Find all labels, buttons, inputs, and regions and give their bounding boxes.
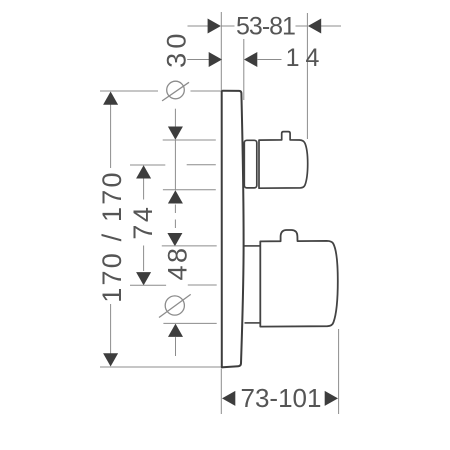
ref line bottom of bottom sleeve <box>163 322 216 324</box>
escutcheon plate (side view) <box>222 91 244 368</box>
svg-text:74: 74 <box>128 205 158 240</box>
arrow 53-81 right <box>308 19 321 34</box>
extension line 73-101 left <box>220 369 222 415</box>
arrow 74 bottom (down) <box>136 272 151 285</box>
bottom handle sleeve lines <box>245 245 260 247</box>
extension line plate right edge (for 14) <box>243 39 245 100</box>
ref line top of top sleeve <box>163 139 216 141</box>
dim line 53-81 tails <box>188 25 209 27</box>
svg-text:30: 30 <box>162 29 192 67</box>
top handle body with tab <box>259 132 308 189</box>
svg-text:53-81: 53-81 <box>236 13 295 41</box>
arrow d48 top (down) <box>167 233 182 246</box>
ref line center of top handle <box>130 164 165 166</box>
dim line 14 tails <box>187 59 209 61</box>
arrow 73-101 right <box>325 391 338 406</box>
arrow d48 bottom (up) <box>168 324 183 337</box>
diameter symbol 30 <box>167 81 185 99</box>
arrow 170/170 top <box>103 92 118 105</box>
arrow 74 top (up) <box>136 165 151 178</box>
diameter symbol 48 <box>165 296 184 315</box>
extension line 170/170 top <box>100 90 158 92</box>
ref line top of bottom sleeve <box>162 245 217 247</box>
svg-text:14: 14 <box>286 44 326 72</box>
bottom handle body with button <box>260 230 338 327</box>
arrow 170/170 bottom <box>103 353 118 366</box>
arrow d30 top (down) <box>168 127 183 140</box>
arrow 53-81 left <box>208 19 221 34</box>
svg-text:48: 48 <box>163 245 193 280</box>
ref line bottom of top sleeve <box>163 189 216 191</box>
dim line d30 column upper <box>174 109 176 127</box>
extension line 170/170 bottom <box>100 366 221 368</box>
ref line center of bottom handle <box>130 284 166 286</box>
extension line right (handle max, top) <box>306 13 308 139</box>
dim line 170/170 <box>110 105 112 169</box>
arrow d30 bottom (up) <box>168 190 183 203</box>
dim line 74 upper <box>143 179 145 200</box>
arrow 73-101 left <box>222 391 235 406</box>
extension line 73-101 right <box>338 329 340 414</box>
dim line d30 column between refs <box>174 140 176 190</box>
extension line left (plate left edge, top) <box>220 12 222 90</box>
dashed line below d30 <box>174 205 176 233</box>
svg-text:170 / 170: 170 / 170 <box>97 170 127 302</box>
svg-text:73-101: 73-101 <box>241 383 322 413</box>
dim line 74 lower <box>143 246 145 272</box>
top handle sleeve <box>244 140 256 188</box>
arrow 14 left <box>209 52 222 67</box>
arrow 14 right <box>244 52 257 67</box>
dim line d48 tail below <box>175 337 177 356</box>
